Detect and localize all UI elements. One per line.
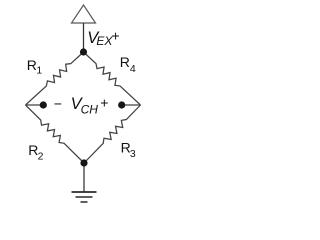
supply triangle (V_EX source symbol) [72, 5, 96, 23]
svg-text:2: 2 [38, 150, 44, 162]
svg-text:CH: CH [81, 103, 99, 117]
svg-text:+: + [100, 95, 108, 111]
svg-text:3: 3 [130, 148, 136, 160]
svg-text:R: R [120, 54, 130, 70]
node: right sense (+) [118, 101, 125, 108]
label R4 [120, 54, 136, 75]
label R2 [28, 142, 43, 162]
wire: triangle to top node [83, 23, 85, 52]
node: bottom (ground) [80, 159, 87, 166]
node: left sense (-) [40, 101, 47, 108]
label R3 [121, 140, 136, 161]
wire: left vertex to left sense dot [26, 104, 44, 106]
resistor R3 [84, 105, 141, 163]
wire: right sense dot to right vertex [122, 104, 141, 106]
svg-text:+: + [112, 28, 120, 44]
svg-text:−: − [54, 95, 62, 111]
resistor R2 [26, 105, 85, 163]
node: top (V_EX+) [80, 48, 87, 55]
svg-text:4: 4 [130, 63, 136, 75]
label - V_CH + [54, 95, 109, 117]
label R1 [27, 57, 43, 77]
resistor R1 [26, 52, 84, 105]
wire: bottom node to ground [83, 163, 85, 192]
svg-text:1: 1 [36, 65, 42, 77]
ground [72, 191, 97, 193]
label V_EX+ [87, 28, 119, 48]
resistor R4 [84, 52, 141, 105]
